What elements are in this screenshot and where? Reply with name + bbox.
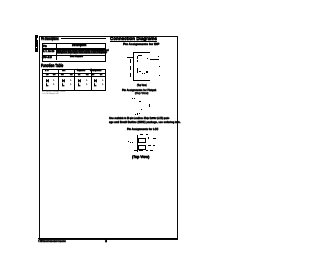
DIP package U1 body left edge	[133, 52, 134, 80]
header row 1 labels	[45, 70, 49, 73]
header row 2 letters	[46, 74, 49, 77]
content frame	[39, 36, 178, 241]
top pin labels	[140, 134, 143, 135]
pin numbers (right, faded)	[159, 66, 160, 67]
scan specks above paragraph	[135, 114, 136, 115]
faded diagram 2 remnants	[132, 98, 133, 99]
notes under function table	[42, 91, 65, 93]
edge tab	[35, 35, 38, 52]
footer rule	[38, 238, 178, 239]
data rows	[46, 79, 49, 83]
caption: top view 3	[132, 156, 149, 159]
right pin marks	[148, 137, 149, 139]
caption 2	[122, 89, 156, 92]
DIP body top edge	[133, 51, 150, 54]
signal labels inside body (faded)	[137, 68, 138, 73]
pin 1 stub (left)	[127, 56, 134, 59]
function table	[42, 69, 106, 91]
pin table	[42, 43, 106, 61]
heading: Connection Diagrams	[110, 37, 157, 42]
footer text	[38, 241, 66, 244]
pin 16 stub (right) with VCC label	[150, 59, 158, 60]
left pin dots	[128, 141, 129, 142]
heading: Function Table	[41, 64, 63, 69]
DIP body bottom edge	[133, 79, 150, 82]
heading: Pin Descriptions	[41, 37, 59, 42]
pin numbers 2-4 (left, faded)	[130, 59, 131, 63]
LCC package U2 left edge	[136, 135, 139, 152]
page number	[105, 240, 107, 244]
paragraph	[109, 118, 170, 121]
caption 3	[127, 128, 158, 131]
caption 1	[123, 43, 159, 46]
caption: top view 1	[137, 85, 147, 88]
bottom pin marks	[134, 150, 137, 151]
pin 1 label inside	[137, 56, 138, 59]
LCC inner pad boxes	[138, 138, 146, 144]
